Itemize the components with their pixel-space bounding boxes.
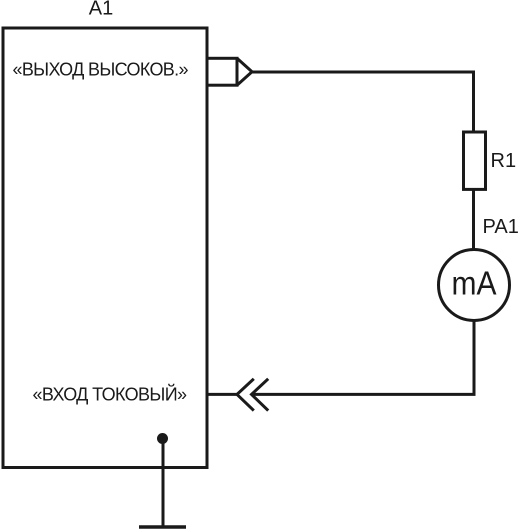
ground xyxy=(139,525,186,529)
svg-text:PA1: PA1 xyxy=(483,216,519,238)
connector socket chevron 2 xyxy=(252,379,269,411)
svg-text:R1: R1 xyxy=(491,150,517,172)
connector plug (high-voltage output) rectangle xyxy=(207,58,237,85)
wire from plug to resistor R1 xyxy=(252,72,474,131)
resistor R1 xyxy=(464,132,486,189)
svg-text:«ВЫХОД ВЫСОКОВ.»: «ВЫХОД ВЫСОКОВ.» xyxy=(13,60,189,80)
connector plug triangle tip xyxy=(237,58,252,85)
wire from resistor to meter xyxy=(472,190,475,249)
svg-text:mA: mA xyxy=(452,265,497,302)
wire from node to ground xyxy=(162,439,165,526)
milliammeter PA1 xyxy=(439,250,510,321)
connector socket chevron 1 xyxy=(237,379,254,411)
device box A1 xyxy=(3,28,207,468)
junction node dot xyxy=(157,433,168,444)
svg-text:«ВХОД ТОКОВЫЙ»: «ВХОД ТОКОВЫЙ» xyxy=(33,384,188,405)
svg-text:A1: A1 xyxy=(89,0,113,20)
wire from meter down and left to current input xyxy=(208,321,474,394)
